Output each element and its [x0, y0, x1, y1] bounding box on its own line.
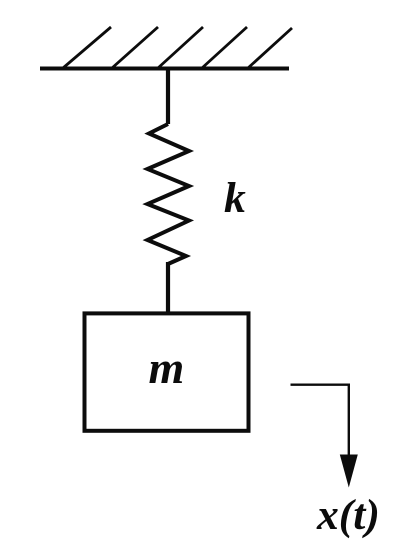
- hatch 2: [112, 27, 158, 68]
- hatch 5: [248, 28, 292, 68]
- svg-text:m: m: [149, 342, 185, 393]
- svg-text:x(t): x(t): [316, 491, 380, 539]
- arrow leader vertical segment: [348, 384, 350, 457]
- hatch 4: [202, 27, 247, 68]
- wire: spring bottom to mass: [166, 262, 170, 313]
- arrowhead of x(t) displacement arrow: [340, 455, 358, 488]
- svg-text:k: k: [224, 174, 246, 222]
- fixed support ceiling line: [40, 67, 289, 71]
- hatch 3: [158, 27, 203, 68]
- spring k: [148, 124, 190, 264]
- mass m box: [85, 313, 249, 430]
- hatch 1: [63, 27, 111, 68]
- arrow leader horizontal segment: [291, 384, 350, 386]
- wire: ceiling to spring top: [166, 68, 170, 124]
